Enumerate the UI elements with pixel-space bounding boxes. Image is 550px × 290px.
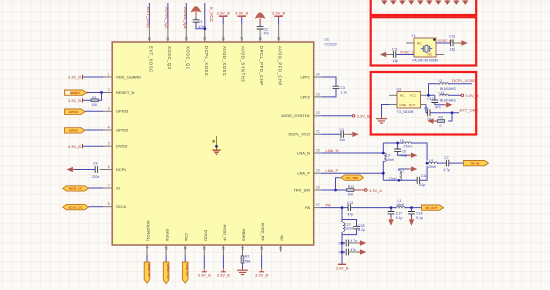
port RF_IN <box>464 161 489 166</box>
ground AGND arrow pin6 <box>67 167 76 172</box>
svg-text:VDD_GUARD: VDD_GUARD <box>116 74 141 79</box>
ground AGND arrow C6 <box>409 153 418 158</box>
svg-text:XOSC_Q1: XOSC_Q1 <box>185 46 190 70</box>
svg-text:XOSC_Q2: XOSC_Q2 <box>438 39 454 43</box>
svg-text:C12: C12 <box>427 97 433 101</box>
svg-text:NC: NC <box>280 235 285 241</box>
wire pullup left <box>83 99 92 101</box>
svg-text:13: 13 <box>221 247 225 251</box>
svg-text:17: 17 <box>316 203 320 207</box>
port RF_OUT <box>422 205 444 210</box>
power port 3.3V_B pin25 <box>272 11 285 17</box>
svg-text:CC1120: CC1120 <box>325 43 337 47</box>
svg-text:C7: C7 <box>444 156 448 160</box>
wire PA supply branch <box>342 208 357 264</box>
capacitor C10 13p crystal right <box>449 35 455 52</box>
pin 21 DCPL_VCO stub <box>314 130 322 135</box>
svg-text:C17: C17 <box>396 212 402 216</box>
svg-text:25nH: 25nH <box>428 165 437 169</box>
svg-text:16nH: 16nH <box>386 158 395 162</box>
wire balun bottom <box>383 179 417 181</box>
capacitor C17 5.1p shunt <box>388 208 403 220</box>
svg-text:1.1n: 1.1n <box>341 90 348 94</box>
svg-text:5.1p: 5.1p <box>419 183 426 187</box>
wire EXT_OSC down to R3 <box>448 113 452 121</box>
wire VCC node <box>429 84 440 96</box>
wire pin30 <box>185 3 187 24</box>
svg-text:AVDD_SYNTH1: AVDD_SYNTH1 <box>281 113 311 118</box>
capacitor C12 47n shunt <box>427 95 441 109</box>
svg-text:25: 25 <box>276 37 280 41</box>
svg-text:C11: C11 <box>392 48 398 52</box>
svg-text:R12: R12 <box>348 185 354 189</box>
svg-text:3.3V_B: 3.3V_B <box>272 11 285 16</box>
svg-text:C1: C1 <box>198 20 202 24</box>
svg-text:L3: L3 <box>439 79 443 83</box>
svg-text:3.3V_B: 3.3V_B <box>357 114 370 119</box>
pin 13 stub <box>221 245 225 255</box>
wire pin9 <box>146 255 148 262</box>
junction LNA_P <box>382 172 385 175</box>
svg-text:GPIO0_CC: GPIO0_CC <box>166 264 170 280</box>
pin 29 stub <box>203 26 207 42</box>
pin 22 AVDD_SYNTH1 stub <box>314 111 322 116</box>
svg-text:EXT_OSC: EXT_OSC <box>460 108 479 113</box>
svg-text:AVDD_SYNTH2: AVDD_SYNTH2 <box>241 46 246 82</box>
wire pin12 <box>203 255 205 268</box>
inductor L2 27nH <box>400 138 412 148</box>
inductor L13 22nH <box>343 223 354 232</box>
ground AGND arrow crystal <box>459 40 468 45</box>
wire TCXO gnd <box>382 105 390 117</box>
pin 23 LPF2 stub <box>314 92 322 97</box>
junction pin29 branch <box>203 27 206 30</box>
svg-text:56k: 56k <box>245 260 251 264</box>
svg-text:22nH: 22nH <box>345 227 354 231</box>
port GPIO0 vertical <box>163 262 170 284</box>
svg-text:19: 19 <box>316 169 320 173</box>
junction L7 bottom <box>398 179 401 182</box>
svg-text:18: 18 <box>316 185 320 189</box>
pin 28 stub <box>221 24 225 42</box>
svg-text:24: 24 <box>316 72 320 76</box>
op IC body U1 CC1120 <box>112 42 314 245</box>
svg-text:6: 6 <box>108 165 110 169</box>
svg-text:C10: C10 <box>449 35 455 39</box>
pin 15 stub <box>259 245 263 255</box>
svg-text:3.3V_B: 3.3V_B <box>255 272 268 277</box>
pin 19 LNA_P stub <box>314 169 322 174</box>
resistor R3 0 <box>437 116 444 129</box>
wire C10 to agnd <box>453 42 460 44</box>
svg-text:21: 21 <box>316 130 320 134</box>
wire R12 to power <box>354 189 365 191</box>
inductor L1 18nH <box>396 199 405 209</box>
svg-text:LNA_P: LNA_P <box>326 168 339 173</box>
pin 26 stub <box>258 29 262 42</box>
svg-text:GND: GND <box>399 103 407 107</box>
svg-text:14: 14 <box>240 247 244 251</box>
junction C6 <box>396 142 399 145</box>
svg-text:47p: 47p <box>347 212 353 216</box>
pin 9 stub <box>145 245 149 255</box>
resistor R2 56k vertical <box>241 255 251 264</box>
ground bars pin14 <box>237 268 248 275</box>
pin 18 TRX_SW stub <box>314 185 322 190</box>
ground AGND arrow L7 <box>409 166 418 171</box>
svg-text:SCLK: SCLK <box>116 204 127 209</box>
svg-text:LNA_N: LNA_N <box>326 148 339 153</box>
svg-text:GPIO2: GPIO2 <box>116 127 129 132</box>
wire pin13 <box>222 255 224 268</box>
ground bars TCXO <box>376 117 387 124</box>
svg-text:AVDD_RF: AVDD_RF <box>261 223 266 242</box>
TCXO NC stub <box>389 94 397 96</box>
svg-text:X_VCC: X_VCC <box>209 7 214 23</box>
wire pin31 <box>167 3 169 24</box>
pin 30 stub <box>184 24 188 42</box>
power port 3.3V_B pullup <box>68 98 83 103</box>
wire C4 to agnd <box>343 133 351 135</box>
capacitor C16 47n shunt <box>338 248 356 255</box>
svg-text:2: 2 <box>108 88 110 92</box>
power port 3.3V_B pin13 <box>217 268 230 277</box>
pin 2 RESET_N stub <box>103 88 112 93</box>
red box 3 <box>371 72 477 135</box>
inductor L14 BLM18HG <box>439 91 457 103</box>
power port 3.3V_B pin15 <box>255 268 268 277</box>
svg-text:TRX_SW: TRX_SW <box>293 187 310 192</box>
svg-text:RESET: RESET <box>70 91 80 95</box>
TCXO OUT stub <box>421 104 427 106</box>
wire pin1 <box>83 76 104 78</box>
pin 5 DVDD stub <box>103 142 112 147</box>
junction VCC <box>427 94 430 97</box>
pin 8 SCLK stub <box>103 202 112 207</box>
wire C11 to corner <box>420 166 428 180</box>
TCXO VCC stub <box>421 94 429 96</box>
wire pin15 <box>261 255 263 268</box>
power port 3.3V_B pin12 <box>198 268 211 277</box>
wire balun top <box>383 142 403 144</box>
svg-text:DCPL_VCO: DCPL_VCO <box>288 132 310 137</box>
port CSN vertical <box>182 262 189 283</box>
svg-text:LNA_N: LNA_N <box>297 150 310 155</box>
svg-text:L7: L7 <box>400 170 404 174</box>
svg-text:R1: R1 <box>92 96 96 100</box>
svg-text:26: 26 <box>258 37 262 41</box>
svg-text:FA-20h 40.000M: FA-20h 40.000M <box>413 59 438 63</box>
capacitor C1 47n <box>193 20 204 29</box>
svg-text:NC: NC <box>417 42 422 46</box>
svg-text:3.3V_B: 3.3V_B <box>68 144 81 149</box>
wire C1 to power <box>195 18 197 20</box>
svg-text:DPCL_PFD_CHP: DPCL_PFD_CHP <box>259 46 264 86</box>
svg-text:Y1: Y1 <box>412 34 416 38</box>
svg-text:22: 22 <box>316 111 320 115</box>
ground arrow right row1 <box>349 240 367 245</box>
svg-text:LPF1: LPF1 <box>300 74 310 79</box>
svg-text:3.3V_B: 3.3V_B <box>235 11 248 16</box>
svg-text:16: 16 <box>279 247 283 251</box>
svg-text:31: 31 <box>166 37 170 41</box>
svg-text:32: 32 <box>147 37 151 41</box>
svg-text:C3: C3 <box>341 86 345 90</box>
svg-text:DCPL: DCPL <box>116 167 127 172</box>
svg-text:EXT_OSC: EXT_OSC <box>146 7 151 29</box>
svg-text:DVDD: DVDD <box>203 230 208 241</box>
pin 25 stub <box>276 24 280 42</box>
svg-text:0: 0 <box>440 124 442 128</box>
wire TRX to port <box>336 178 342 190</box>
svg-text:3.3V_B: 3.3V_B <box>335 265 348 270</box>
wire pin5 <box>83 145 104 147</box>
svg-text:C9: C9 <box>424 107 428 111</box>
svg-text:3.3V_B: 3.3V_B <box>217 272 230 277</box>
port GPIO3 <box>65 109 86 114</box>
svg-text:U1: U1 <box>325 38 329 42</box>
pin 7 SI stub <box>103 183 112 188</box>
port SCLK_CC <box>63 204 89 209</box>
wire pin28 <box>222 17 224 24</box>
svg-text:47n: 47n <box>435 106 441 110</box>
svg-text:20: 20 <box>316 148 320 152</box>
svg-text:30: 30 <box>184 37 188 41</box>
svg-text:XOSC_Q1: XOSC_Q1 <box>183 7 188 29</box>
junction C17 <box>390 206 393 209</box>
power port 3.3V_B pin27 <box>235 11 248 17</box>
svg-text:23: 23 <box>316 92 320 96</box>
red box 1 <box>371 0 477 15</box>
svg-text:L2: L2 <box>400 138 404 142</box>
svg-text:4: 4 <box>108 125 110 129</box>
ground arrow down C17 <box>388 214 393 226</box>
svg-text:MISO_CC: MISO_CC <box>147 264 151 279</box>
svg-text:AVDD_IF: AVDD_IF <box>222 224 227 241</box>
svg-text:C13: C13 <box>347 201 353 205</box>
capacitor C7 4.7p series <box>443 156 450 172</box>
svg-text:9: 9 <box>145 247 149 249</box>
svg-text:12: 12 <box>202 247 206 251</box>
svg-text:3.3V_B: 3.3V_B <box>68 98 81 103</box>
wire pin11 <box>184 255 186 262</box>
svg-text:29: 29 <box>203 37 207 41</box>
svg-text:XOSC_Q2: XOSC_Q2 <box>165 7 170 29</box>
crystal NC stub right bottom <box>436 54 444 56</box>
svg-text:3.3V_B: 3.3V_B <box>68 75 81 80</box>
svg-text:27nH: 27nH <box>404 145 413 149</box>
svg-text:3.3V_B: 3.3V_B <box>198 272 211 277</box>
inductor L4 25nH <box>428 158 437 168</box>
svg-text:GPIO2: GPIO2 <box>69 129 79 133</box>
power port circle 3.3V_B box3 <box>461 93 479 98</box>
ground AGND arrow C12 <box>444 102 453 107</box>
designator U1 CC1120 <box>325 38 337 47</box>
svg-text:RF_OUT: RF_OUT <box>426 206 438 210</box>
svg-text:L14: L14 <box>439 91 445 95</box>
red box 2 <box>371 17 477 65</box>
junction C18 <box>410 206 413 209</box>
svg-text:LNA_P: LNA_P <box>297 171 310 176</box>
wire C12 to agnd <box>435 103 444 105</box>
wire C13 to L1 <box>351 207 397 209</box>
wire GPIO3 <box>85 110 103 112</box>
capacitor C28 8.2p <box>353 224 365 232</box>
wire PA to C13 <box>322 207 349 209</box>
inductor L5 16nH vertical <box>384 153 395 162</box>
capacitor C4 10n <box>340 128 346 142</box>
svg-text:AVDD_XOSC: AVDD_XOSC <box>222 46 227 76</box>
pin 27 stub <box>239 24 243 42</box>
svg-text:15: 15 <box>259 247 263 251</box>
port GPIO2 <box>65 128 86 133</box>
svg-text:RBIAS: RBIAS <box>242 229 247 241</box>
wire R3 to agnd <box>435 120 437 122</box>
crystal glyph <box>421 45 432 52</box>
power port 3.3V_B pin5 <box>68 144 83 149</box>
power port 3.3V_B pin1 <box>68 75 83 80</box>
power port circle 3.3V_A <box>365 188 383 193</box>
pin 17 PA stub <box>314 203 322 208</box>
svg-text:13p: 13p <box>450 48 456 52</box>
svg-text:SI: SI <box>116 185 120 190</box>
inductor L3 BLM18HG <box>439 79 457 91</box>
svg-text:EXT_XOSC: EXT_XOSC <box>148 46 153 73</box>
wire RESET to pin2 <box>89 92 104 94</box>
svg-text:CSN_CC: CSN_CC <box>185 264 189 277</box>
svg-text:28: 28 <box>221 37 225 41</box>
svg-text:7: 7 <box>108 183 110 187</box>
pin 14 stub <box>240 245 244 256</box>
wire pin21 <box>322 133 342 135</box>
capacitor C9 1n series <box>424 107 431 121</box>
wire pullup vertical <box>98 93 101 101</box>
svg-text:C16: C16 <box>338 251 344 255</box>
svg-text:VCC: VCC <box>410 94 417 98</box>
wire LPF1 bracket <box>322 77 337 86</box>
capacitor C18 5.1p shunt <box>408 208 423 220</box>
svg-text:8.2p: 8.2p <box>358 228 365 232</box>
svg-text:3.3V_A: 3.3V_A <box>369 188 382 193</box>
svg-text:SCLK_CC: SCLK_CC <box>68 205 83 209</box>
wire R2 to gnd <box>242 264 244 269</box>
svg-text:GPIO3: GPIO3 <box>116 109 129 114</box>
wire LNA_N <box>322 152 384 154</box>
wire L7 to agnd <box>399 169 409 171</box>
ground arrow right row2 <box>349 249 367 254</box>
wire pin18 <box>322 189 348 191</box>
wire pin27 <box>241 17 243 24</box>
svg-text:11: 11 <box>183 247 187 251</box>
capacitor C11 5.1p series <box>417 174 427 187</box>
junction LNA_N <box>382 152 385 155</box>
wire L4 to C7 <box>437 162 446 164</box>
pin 20 LNA_N stub <box>314 148 322 153</box>
svg-text:1: 1 <box>108 72 110 76</box>
port CC_TRX <box>341 175 364 180</box>
ground arrows row in box 1 <box>382 0 467 4</box>
wire L1 to RF_OUT <box>405 207 422 209</box>
svg-text:8: 8 <box>108 202 110 206</box>
power port X_VCC arch pin29 <box>191 6 202 17</box>
junction balun output <box>426 162 429 165</box>
svg-text:3.3V_B: 3.3V_B <box>217 11 230 16</box>
wire L3 to DCPL_XOSC <box>449 83 472 85</box>
wire C7 to RF_IN port <box>449 162 464 164</box>
pin 6 DCPL stub <box>100 165 112 170</box>
svg-text:18nH: 18nH <box>396 203 405 207</box>
svg-text:BLM18HG: BLM18HG <box>440 99 456 103</box>
wire GPIO2 <box>85 129 103 131</box>
svg-text:C4: C4 <box>340 128 344 132</box>
inductor L7 27nH vertical <box>388 170 404 181</box>
svg-text:27: 27 <box>239 37 243 41</box>
junction PA branch <box>341 206 344 209</box>
svg-text:5: 5 <box>108 142 110 146</box>
exposed pad ground inside IC <box>212 136 222 155</box>
pin 1 VDD_GUARD stub <box>103 72 112 77</box>
pin 12 stub <box>202 245 206 255</box>
wire pin6 <box>75 169 96 171</box>
pin 16 stub NC <box>279 245 283 252</box>
svg-text:CSn: CSn <box>184 233 189 241</box>
wire crystal right top <box>436 42 451 44</box>
ground arrow down C18 <box>409 214 414 226</box>
svg-text:10K: 10K <box>92 103 99 107</box>
port RESET <box>65 90 89 95</box>
wire pin22 <box>322 115 353 117</box>
svg-text:RESET_N: RESET_N <box>116 90 135 95</box>
svg-text:GPIO0: GPIO0 <box>165 229 170 242</box>
wire pin29 branch to C1 <box>196 22 205 29</box>
svg-text:XOSC_Q2: XOSC_Q2 <box>167 46 172 70</box>
pin 32 stub <box>147 24 151 42</box>
svg-text:GPIO3: GPIO3 <box>69 110 79 114</box>
svg-text:RF_IN: RF_IN <box>471 161 480 165</box>
svg-text:R3: R3 <box>439 116 443 120</box>
wire pin10 <box>165 255 167 262</box>
svg-text:5.1p: 5.1p <box>396 216 403 220</box>
svg-text:4.7p: 4.7p <box>443 168 450 172</box>
capacitor C8 220n <box>92 161 100 179</box>
wire LNA_P <box>322 172 384 174</box>
svg-text:MOSI_CC: MOSI_CC <box>69 187 84 191</box>
svg-text:13p: 13p <box>392 59 398 63</box>
pin 10 stub <box>164 245 168 255</box>
capacitor C3 1.1n <box>333 86 348 95</box>
junction R3 <box>451 111 454 114</box>
crystal Y1 body <box>412 34 437 57</box>
wire pin8 <box>89 206 104 208</box>
junction PA supply cap row1 <box>341 242 344 245</box>
svg-text:C18: C18 <box>416 212 422 216</box>
wire OUT to C9 <box>426 105 428 113</box>
capacitor C11 13p crystal left <box>392 48 398 63</box>
wire LPF2 bracket <box>322 89 337 97</box>
svg-text:47n: 47n <box>264 31 270 35</box>
power port 3.3V_B pin28 <box>217 11 230 17</box>
port MOSI_CC <box>63 186 89 191</box>
TCXO U3 body <box>397 87 421 108</box>
wire L2 to corner <box>411 143 427 161</box>
svg-text:CC_TRX: CC_TRX <box>346 176 358 180</box>
ground AGND arrow left of C11x <box>380 52 389 57</box>
capacitor C15 4.7n shunt <box>338 239 357 246</box>
svg-text:3: 3 <box>108 107 110 111</box>
svg-text:L4: L4 <box>429 158 433 162</box>
svg-text:SO(GPIO1): SO(GPIO1) <box>146 220 151 241</box>
resistor R12 10K <box>347 185 354 197</box>
